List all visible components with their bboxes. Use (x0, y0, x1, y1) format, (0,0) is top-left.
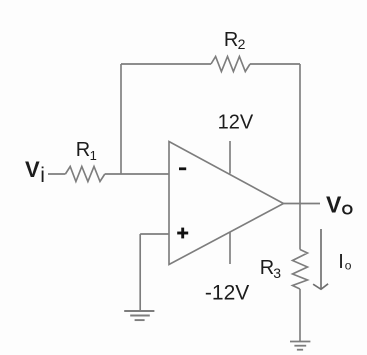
resistor R1 (65, 167, 104, 182)
op-amp U1 (169, 142, 284, 265)
wire (299, 204, 301, 250)
wire (299, 289, 301, 342)
label R1 (76, 139, 97, 163)
svg-text:2: 2 (238, 36, 246, 52)
power pin V- (229, 233, 231, 265)
svg-text:i: i (40, 164, 45, 187)
svg-text:V: V (25, 157, 40, 182)
wire (121, 63, 211, 65)
svg-text:3: 3 (273, 265, 281, 281)
svg-text:o: o (345, 258, 352, 272)
svg-text:R: R (76, 139, 90, 161)
current arrow Io (313, 229, 328, 289)
wire (299, 64, 301, 204)
ground (290, 342, 310, 350)
svg-text:1: 1 (90, 148, 97, 163)
resistor R3 (293, 250, 308, 290)
wire (284, 203, 321, 205)
wire (120, 64, 122, 174)
svg-text:12V: 12V (218, 111, 254, 133)
label R2 (224, 29, 246, 52)
wire (48, 173, 65, 175)
svg-text:O: O (342, 202, 354, 219)
svg-text:R: R (224, 29, 238, 51)
label Vi (25, 157, 45, 187)
svg-text:-12V: -12V (205, 282, 249, 305)
ground (124, 311, 154, 320)
svg-text:R: R (260, 257, 274, 279)
svg-text:I: I (338, 251, 344, 273)
svg-text:V: V (326, 192, 342, 218)
wire (140, 233, 169, 235)
wire (250, 63, 300, 65)
label R3 (260, 257, 281, 281)
wire (105, 173, 169, 175)
label Vo (326, 192, 354, 219)
label Io (338, 251, 352, 273)
wire (139, 234, 141, 311)
power pin V+ (229, 141, 231, 174)
resistor R2 (211, 57, 250, 72)
